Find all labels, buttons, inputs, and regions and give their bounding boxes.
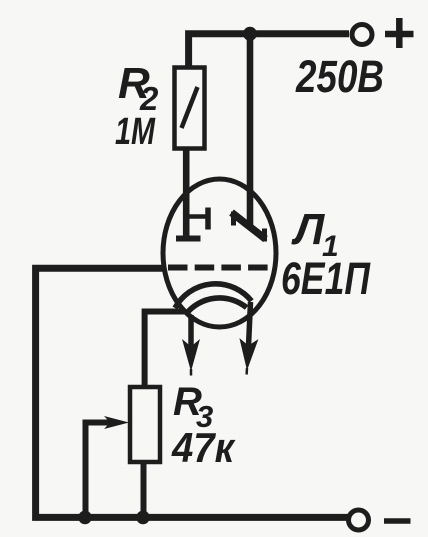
svg-text:6Е1П: 6Е1П <box>281 253 371 304</box>
svg-text:250В: 250В <box>295 51 384 102</box>
svg-text:47к: 47к <box>171 424 235 471</box>
svg-text:Л: Л <box>291 205 325 254</box>
svg-text:1М: 1М <box>115 111 156 153</box>
